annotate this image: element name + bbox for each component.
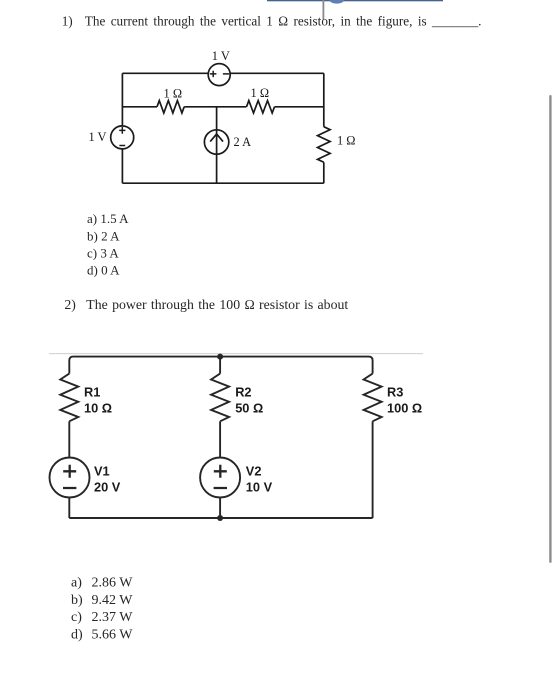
wire: circuit1 right branch lower — [323, 162, 325, 183]
svg-text:1 Ω: 1 Ω — [164, 86, 183, 100]
svg-text:10 Ω: 10 Ω — [84, 401, 112, 416]
svg-text:2 A: 2 A — [234, 135, 252, 149]
wire: circuit2 middle mid — [219, 421, 221, 457]
svg-text:10 V: 10 V — [246, 480, 273, 495]
svg-text:R3: R3 — [387, 385, 403, 400]
svg-text:V1: V1 — [94, 464, 110, 479]
svg-text:b): b) — [71, 593, 83, 608]
wire: circuit2 bottom — [69, 517, 372, 519]
wire: circuit2 middle stub top — [219, 357, 221, 374]
svg-text:50 Ω: 50 Ω — [235, 401, 263, 416]
wire: circuit1 middle left segment — [122, 106, 157, 108]
svg-text:1): 1) — [62, 14, 73, 29]
svg-text:100 Ω: 100 Ω — [387, 401, 422, 416]
svg-text:d): d) — [71, 627, 83, 642]
wire: circuit1 top — [122, 72, 323, 74]
wire: circuit2 middle bottom stub — [219, 498, 221, 519]
current source 2A — [204, 130, 228, 154]
wire: circuit2 left mid — [68, 421, 70, 457]
svg-text:a): a) — [71, 575, 82, 590]
voltage source V2 — [200, 458, 240, 498]
wire: circuit2 right lower — [372, 421, 374, 518]
wire: circuit1 center branch — [216, 107, 218, 183]
svg-text:The power through the 100 Ω re: The power through the 100 Ω resistor is … — [86, 297, 348, 312]
wire: circuit1 right branch upper — [323, 73, 325, 126]
svg-text:1 V: 1 V — [212, 49, 230, 63]
hairline rule (image border artifact) — [49, 353, 423, 354]
svg-text:V2: V2 — [246, 464, 262, 479]
svg-text:R1: R1 — [84, 385, 100, 400]
svg-text:a) 1.5 A: a) 1.5 A — [87, 211, 129, 226]
svg-text:2.86 W: 2.86 W — [92, 575, 134, 590]
resistor 1ohm (middle left) — [157, 101, 184, 113]
svg-text:20 V: 20 V — [94, 480, 121, 495]
resistor 1ohm (right vertical) — [317, 127, 330, 163]
svg-text:9.42 W: 9.42 W — [92, 593, 134, 608]
resistor R1 — [60, 374, 78, 422]
svg-text:5.66 W: 5.66 W — [92, 627, 134, 642]
wire: circuit1 middle center segment — [184, 106, 246, 108]
blue marker blob (artifact) — [330, 0, 345, 4]
resistor R2 — [211, 374, 229, 422]
svg-text:1 Ω: 1 Ω — [251, 86, 270, 100]
voltage source V1 — [50, 458, 90, 498]
resistor R3 — [364, 374, 382, 422]
node: circuit2 bottom junction — [217, 515, 223, 521]
top navy rule (screenshot artifact) — [267, 0, 443, 1]
svg-text:c) 3 A: c) 3 A — [87, 246, 119, 261]
wire: circuit1 middle right segment — [275, 106, 324, 108]
svg-text:c): c) — [71, 610, 82, 625]
svg-text:1 V: 1 V — [88, 130, 106, 144]
svg-text:R2: R2 — [235, 385, 251, 400]
voltage source 1V (top) — [208, 64, 230, 86]
svg-text:1 Ω: 1 Ω — [337, 134, 356, 148]
svg-text:2.37 W: 2.37 W — [92, 610, 134, 625]
voltage source 1V (left) — [111, 126, 134, 149]
resistor 1ohm (middle right) — [247, 101, 275, 113]
node: circuit2 top junction — [217, 354, 223, 360]
svg-text:b) 2 A: b) 2 A — [87, 228, 120, 243]
wire: circuit1 left branch vertical — [121, 73, 123, 183]
wire: circuit2 top — [69, 357, 372, 374]
wire: circuit2 left bottom stub — [68, 498, 70, 519]
svg-text:2): 2) — [64, 297, 76, 313]
vertical caret line (artifact) — [323, 0, 325, 20]
svg-text:The current through the vertic: The current through the vertical 1 Ω res… — [85, 14, 482, 29]
wire: circuit1 bottom — [122, 182, 323, 184]
svg-text:d) 0 A: d) 0 A — [87, 263, 120, 278]
scrollbar thumb (right edge) — [549, 95, 551, 563]
